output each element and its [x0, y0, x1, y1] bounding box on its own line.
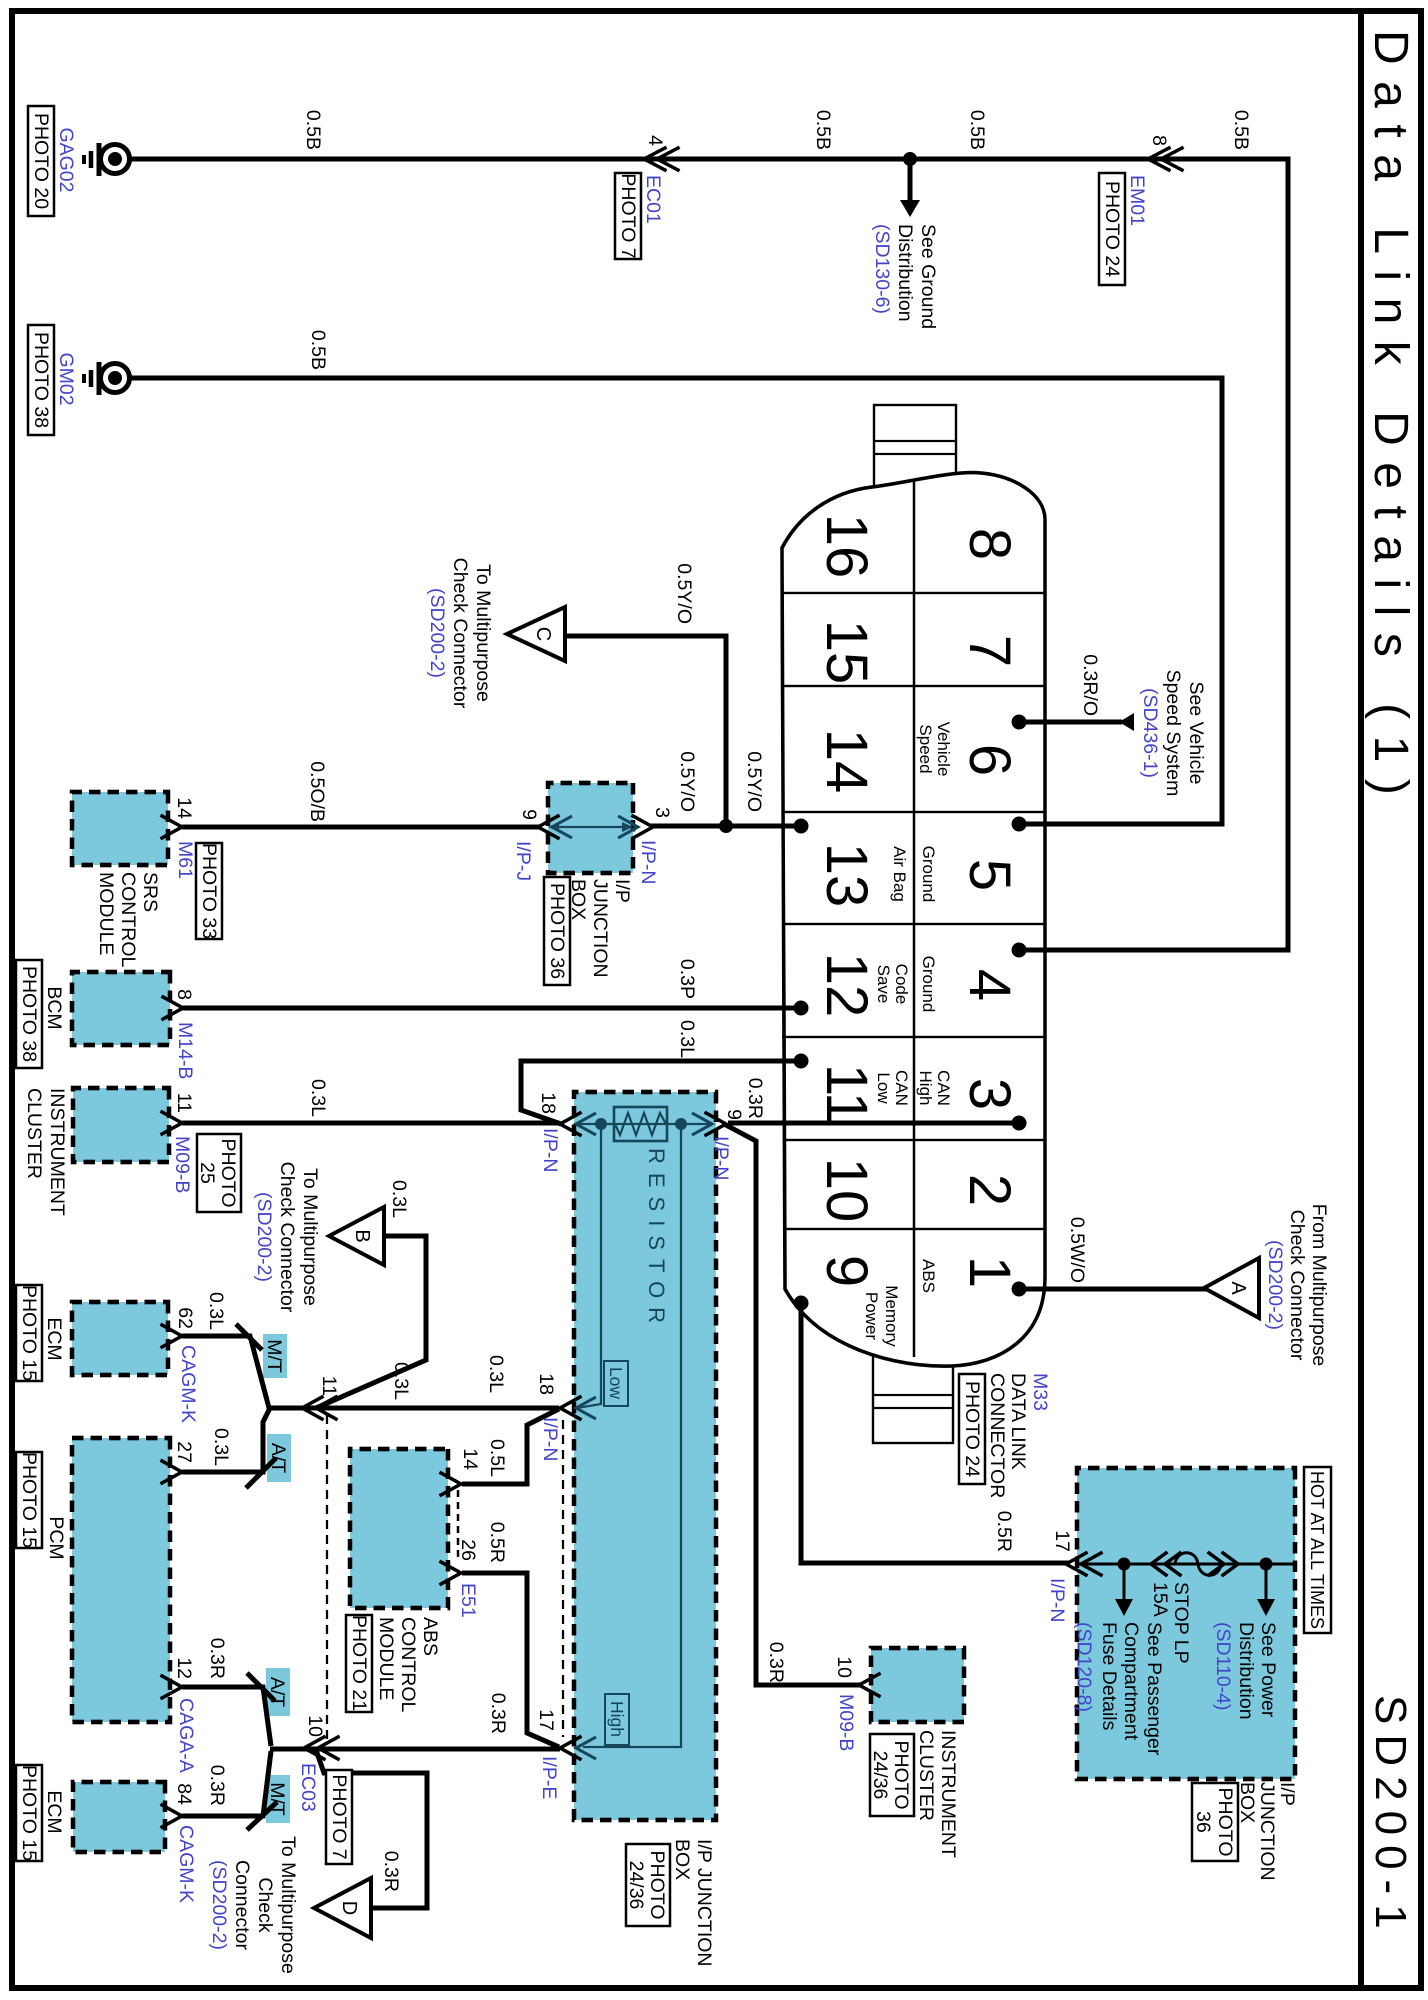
svg-text:See Vehicle: See Vehicle — [1185, 682, 1207, 785]
svg-text:(SD120-8): (SD120-8) — [1073, 1622, 1095, 1712]
svg-text:High: High — [607, 1701, 627, 1737]
svg-text:(SD200-2): (SD200-2) — [253, 1192, 275, 1282]
svg-text:Distribution: Distribution — [894, 224, 916, 322]
svg-text:I/P-N: I/P-N — [539, 1417, 561, 1461]
svg-text:0.5B: 0.5B — [1230, 110, 1252, 150]
svg-text:I/P JUNCTION: I/P JUNCTION — [693, 1839, 715, 1966]
svg-text:8: 8 — [957, 528, 1022, 560]
svg-text:0.3L: 0.3L — [205, 1292, 227, 1330]
svg-text:0.3L: 0.3L — [210, 1428, 232, 1466]
svg-text:ABS: ABS — [919, 1259, 938, 1293]
svg-text:CONTROL: CONTROL — [397, 1617, 419, 1712]
svg-text:PHOTO 20: PHOTO 20 — [30, 113, 52, 209]
svg-text:0.5B: 0.5B — [812, 110, 834, 150]
svg-text:GAG02: GAG02 — [55, 127, 77, 192]
svg-text:BOX: BOX — [671, 1839, 693, 1880]
svg-text:MODULE: MODULE — [375, 1617, 397, 1700]
svg-text:HOT AT ALL TIMES: HOT AT ALL TIMES — [1307, 1471, 1327, 1629]
svg-text:D: D — [338, 1901, 360, 1915]
svg-text:0.5R: 0.5R — [486, 1522, 508, 1563]
svg-text:JUNCTION: JUNCTION — [589, 879, 611, 978]
svg-text:CLUSTER: CLUSTER — [23, 1088, 45, 1179]
svg-text:11: 11 — [318, 1376, 340, 1396]
svg-text:See Power: See Power — [1257, 1622, 1279, 1718]
svg-text:PHOTO 7: PHOTO 7 — [617, 173, 639, 258]
svg-text:16: 16 — [814, 514, 879, 579]
svg-text:10: 10 — [814, 1158, 879, 1223]
svg-text:17: 17 — [535, 1709, 557, 1731]
svg-text:Memory: Memory — [882, 1285, 901, 1347]
svg-text:25: 25 — [196, 1162, 218, 1184]
svg-text:Data Link Details (1): Data Link Details (1) — [1364, 30, 1417, 811]
svg-text:3: 3 — [651, 807, 673, 818]
svg-text:M61: M61 — [174, 841, 196, 879]
svg-text:14: 14 — [173, 797, 195, 819]
svg-text:A/T: A/T — [267, 1443, 289, 1473]
svg-text:PHOTO 24: PHOTO 24 — [1101, 181, 1123, 277]
svg-text:0.5R: 0.5R — [993, 1511, 1015, 1552]
svg-text:I/P-N: I/P-N — [539, 1128, 561, 1172]
svg-text:15A: 15A — [1149, 1582, 1171, 1617]
svg-text:Distribution: Distribution — [1235, 1622, 1257, 1720]
svg-text:0.5O/B: 0.5O/B — [306, 761, 328, 822]
svg-text:0.3R/O: 0.3R/O — [1079, 654, 1101, 716]
svg-text:8: 8 — [173, 989, 195, 1000]
svg-text:26: 26 — [457, 1539, 479, 1561]
svg-text:(SD200-2): (SD200-2) — [426, 588, 448, 678]
svg-text:0.3R: 0.3R — [206, 1765, 228, 1806]
svg-text:0.3R: 0.3R — [765, 1642, 787, 1683]
svg-text:0.5Y/O: 0.5Y/O — [673, 563, 695, 624]
svg-text:INSTRUMENT: INSTRUMENT — [937, 1730, 959, 1858]
svg-text:Low: Low — [874, 1072, 893, 1104]
svg-text:(SD110-4): (SD110-4) — [1212, 1622, 1234, 1711]
svg-text:See Ground: See Ground — [917, 224, 939, 329]
svg-text:Check: Check — [254, 1877, 276, 1933]
svg-text:PHOTO: PHOTO — [890, 1741, 912, 1810]
svg-text:CLUSTER: CLUSTER — [915, 1730, 937, 1821]
svg-text:0.3R: 0.3R — [380, 1851, 402, 1892]
svg-text:I/P-N: I/P-N — [637, 840, 659, 884]
svg-text:(SD200-2): (SD200-2) — [1264, 1240, 1286, 1330]
svg-text:17: 17 — [1051, 1530, 1073, 1552]
svg-text:(SD130-6): (SD130-6) — [871, 224, 893, 314]
svg-text:CAGM-K: CAGM-K — [175, 1825, 197, 1903]
svg-text:5: 5 — [957, 859, 1022, 891]
svg-text:0.5B: 0.5B — [307, 330, 329, 370]
svg-text:0.5L: 0.5L — [486, 1439, 508, 1477]
svg-text:PHOTO 38: PHOTO 38 — [18, 966, 40, 1062]
svg-text:4: 4 — [644, 135, 666, 146]
svg-text:14: 14 — [814, 729, 879, 794]
svg-text:0.5Y/O: 0.5Y/O — [676, 751, 698, 812]
svg-text:A: A — [1227, 1281, 1249, 1295]
svg-text:M09-B: M09-B — [835, 1694, 857, 1751]
svg-text:PHOTO 15: PHOTO 15 — [18, 1285, 40, 1381]
svg-text:EC01: EC01 — [642, 175, 664, 224]
svg-text:(SD200-2): (SD200-2) — [208, 1860, 230, 1950]
svg-text:9: 9 — [814, 1255, 879, 1287]
svg-text:To Multipurpose: To Multipurpose — [299, 1168, 321, 1306]
svg-text:PHOTO 33: PHOTO 33 — [198, 843, 220, 939]
svg-text:Connector: Connector — [231, 1860, 253, 1950]
svg-text:I/P-N: I/P-N — [710, 1136, 732, 1180]
svg-text:12: 12 — [173, 1657, 195, 1679]
svg-text:(SD436-1): (SD436-1) — [1139, 688, 1161, 778]
svg-text:SD200-1: SD200-1 — [1366, 1695, 1415, 1939]
svg-text:PHOTO 15: PHOTO 15 — [18, 1765, 40, 1861]
svg-text:0.5Y/O: 0.5Y/O — [743, 751, 765, 812]
svg-text:ECM: ECM — [43, 1790, 65, 1833]
svg-text:Save: Save — [874, 965, 893, 1004]
svg-text:10: 10 — [304, 1715, 326, 1737]
svg-text:Compartment: Compartment — [1120, 1622, 1142, 1741]
svg-text:27: 27 — [173, 1441, 195, 1463]
svg-text:15: 15 — [814, 620, 879, 685]
svg-text:JUNCTION: JUNCTION — [1256, 1782, 1278, 1881]
svg-text:EC03: EC03 — [297, 1763, 319, 1812]
svg-text:C: C — [532, 627, 554, 641]
svg-text:MODULE: MODULE — [95, 872, 117, 955]
svg-text:PHOTO: PHOTO — [217, 1139, 239, 1208]
svg-text:From Multipurpose: From Multipurpose — [1308, 1204, 1330, 1367]
svg-text:Check Connector: Check Connector — [1286, 1210, 1308, 1361]
svg-text:RESISTOR: RESISTOR — [644, 1148, 669, 1332]
svg-text:SRS: SRS — [139, 872, 161, 912]
svg-text:A/T: A/T — [266, 1677, 288, 1707]
svg-text:E51: E51 — [457, 1583, 479, 1618]
svg-text:6: 6 — [957, 744, 1022, 776]
svg-text:14: 14 — [459, 1448, 481, 1470]
svg-text:PHOTO: PHOTO — [646, 1851, 668, 1920]
svg-text:0.5B: 0.5B — [966, 110, 988, 150]
svg-text:0.5B: 0.5B — [302, 110, 324, 150]
svg-text:CAGM-K: CAGM-K — [177, 1345, 199, 1423]
svg-text:PHOTO 24: PHOTO 24 — [961, 1381, 983, 1477]
svg-text:18: 18 — [535, 1373, 557, 1395]
svg-text:M/T: M/T — [263, 1339, 285, 1373]
svg-text:Power: Power — [862, 1292, 881, 1341]
svg-text:Ground: Ground — [919, 956, 938, 1013]
svg-text:11: 11 — [173, 1093, 195, 1113]
svg-text:0.3L: 0.3L — [388, 1180, 410, 1218]
svg-text:Vehicle: Vehicle — [934, 722, 953, 777]
svg-text:To Multipurpose: To Multipurpose — [277, 1836, 299, 1974]
svg-text:0.3L: 0.3L — [485, 1355, 507, 1393]
svg-text:0.3P: 0.3P — [676, 959, 698, 999]
svg-text:9: 9 — [723, 1109, 745, 1120]
svg-text:Fuse Details: Fuse Details — [1098, 1622, 1120, 1731]
svg-text:PHOTO: PHOTO — [1214, 1788, 1236, 1857]
svg-text:I/P-J: I/P-J — [512, 841, 534, 881]
svg-text:Speed System: Speed System — [1162, 670, 1184, 797]
svg-text:0.3L: 0.3L — [307, 1079, 329, 1117]
svg-text:To Multipurpose: To Multipurpose — [472, 564, 494, 702]
svg-text:Low: Low — [606, 1367, 626, 1399]
svg-text:Code: Code — [892, 964, 911, 1005]
svg-text:M33: M33 — [1029, 1373, 1051, 1411]
svg-text:ECM: ECM — [43, 1317, 65, 1360]
svg-text:Air Bag: Air Bag — [890, 846, 909, 902]
svg-text:Check Connector: Check Connector — [449, 558, 471, 709]
svg-text:STOP LP: STOP LP — [1170, 1582, 1192, 1664]
svg-text:GM02: GM02 — [55, 352, 77, 405]
svg-text:PHOTO 38: PHOTO 38 — [30, 332, 52, 428]
svg-text:11: 11 — [814, 1064, 879, 1124]
svg-text:High: High — [916, 1071, 935, 1106]
svg-text:DATA LINK: DATA LINK — [1007, 1373, 1029, 1470]
svg-text:I/P-E: I/P-E — [538, 1756, 560, 1799]
svg-text:7: 7 — [957, 635, 1022, 667]
svg-text:I/P-N: I/P-N — [1046, 1578, 1068, 1622]
svg-text:0.3R: 0.3R — [744, 1078, 766, 1119]
svg-text:2: 2 — [957, 1174, 1022, 1206]
svg-text:M09-B: M09-B — [171, 1136, 193, 1193]
svg-text:CONNECTOR: CONNECTOR — [986, 1373, 1008, 1498]
svg-text:BOX: BOX — [1236, 1782, 1258, 1823]
svg-text:M/T: M/T — [266, 1782, 288, 1816]
svg-text:12: 12 — [814, 953, 879, 1018]
svg-text:8: 8 — [1148, 135, 1170, 146]
svg-text:4: 4 — [957, 969, 1022, 1001]
svg-text:PHOTO 7: PHOTO 7 — [328, 1774, 350, 1859]
svg-text:13: 13 — [814, 843, 879, 908]
svg-text:0.5W/O: 0.5W/O — [1066, 1217, 1088, 1283]
svg-text:I/P: I/P — [611, 879, 633, 903]
svg-text:CONTROL: CONTROL — [117, 872, 139, 967]
svg-text:1: 1 — [957, 1256, 1022, 1288]
svg-text:PHOTO 36: PHOTO 36 — [546, 883, 568, 979]
svg-text:M14-B: M14-B — [174, 1022, 196, 1079]
svg-text:EM01: EM01 — [1126, 175, 1148, 226]
svg-text:18: 18 — [537, 1092, 559, 1114]
svg-text:See Passenger: See Passenger — [1143, 1622, 1165, 1756]
svg-text:CAN: CAN — [892, 1070, 911, 1106]
svg-text:9: 9 — [518, 809, 540, 820]
svg-text:ABS: ABS — [419, 1617, 441, 1656]
svg-text:PHOTO 15: PHOTO 15 — [18, 1452, 40, 1548]
svg-text:PHOTO 21: PHOTO 21 — [348, 1615, 370, 1711]
svg-text:INSTRUMENT: INSTRUMENT — [46, 1088, 68, 1216]
svg-text:36: 36 — [1192, 1811, 1214, 1833]
svg-text:0.3L: 0.3L — [390, 1362, 412, 1400]
svg-text:24/36: 24/36 — [869, 1751, 891, 1800]
svg-text:CAN: CAN — [934, 1070, 953, 1106]
svg-text:BCM: BCM — [43, 986, 65, 1029]
svg-text:I/P: I/P — [1276, 1782, 1298, 1806]
svg-text:PCM: PCM — [45, 1516, 67, 1559]
svg-text:24/36: 24/36 — [625, 1861, 647, 1910]
svg-text:0.3L: 0.3L — [676, 1020, 698, 1058]
svg-text:84: 84 — [173, 1783, 195, 1805]
svg-text:0.3R: 0.3R — [487, 1693, 509, 1734]
svg-text:Ground: Ground — [919, 846, 938, 903]
svg-text:Check Connector: Check Connector — [276, 1162, 298, 1313]
svg-text:10: 10 — [833, 1656, 855, 1678]
svg-text:B: B — [351, 1229, 373, 1242]
svg-text:0.3R: 0.3R — [206, 1638, 228, 1679]
svg-text:CAGA-A: CAGA-A — [175, 1698, 197, 1773]
svg-text:3: 3 — [957, 1078, 1022, 1110]
svg-text:Speed: Speed — [916, 724, 935, 773]
svg-text:62: 62 — [174, 1307, 196, 1329]
